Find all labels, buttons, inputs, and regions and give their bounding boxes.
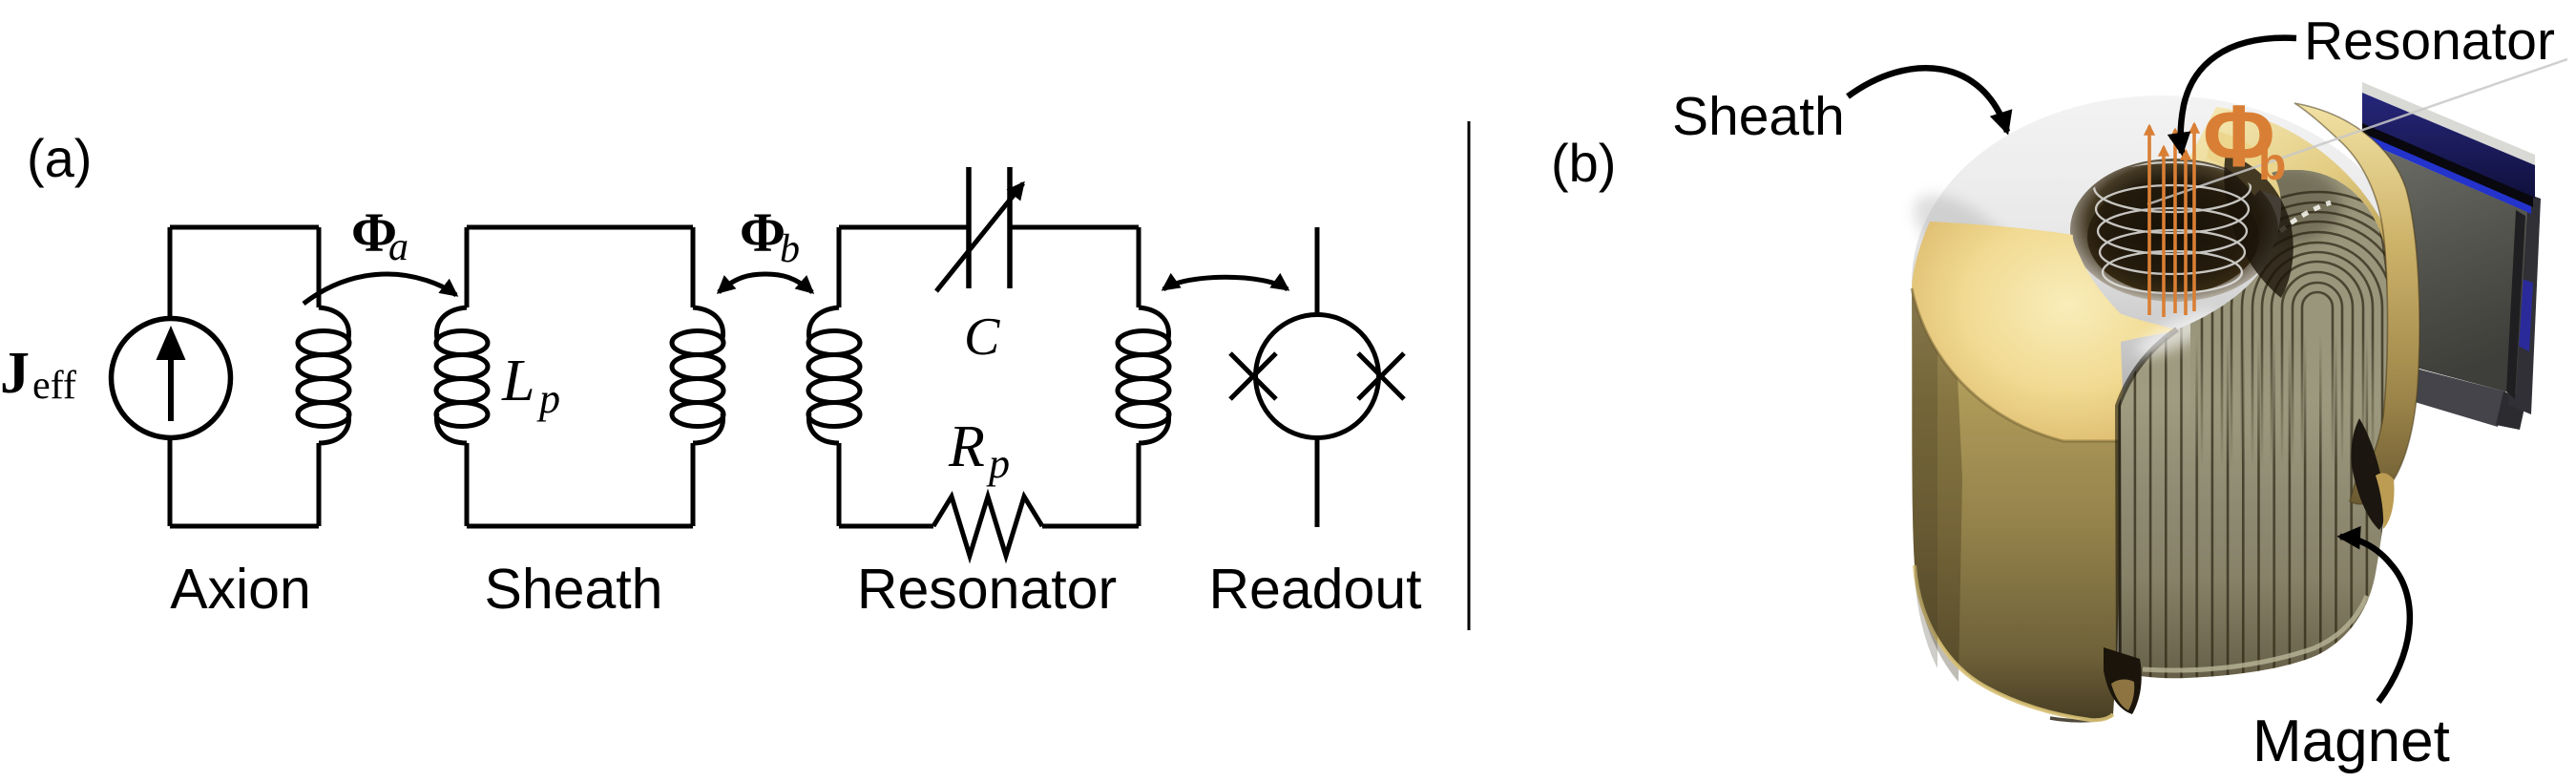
magnet winding arch (cut face)	[2190, 162, 2433, 535]
pointer arrow magnet	[2340, 537, 2410, 702]
svg-text:Resonator: Resonator	[2304, 11, 2555, 72]
flux label Phi_b	[740, 201, 800, 271]
sheath cylinder left shading	[1912, 296, 1937, 668]
sheath cylinder bottom rim highlight	[1915, 565, 2113, 720]
inductor axion coil	[298, 307, 349, 443]
inductor resonator right coil	[1118, 307, 1169, 443]
svg-text:Resonator: Resonator	[857, 558, 1117, 621]
inductor sheath right coil L_p	[672, 307, 723, 443]
svg-text:C: C	[964, 307, 1000, 367]
value label R_p	[948, 414, 1010, 487]
silver rim gray streaks	[1899, 178, 2037, 303]
gold bottom corner dark edge	[2050, 715, 2112, 721]
resistor R_p	[933, 497, 1042, 556]
wire axion loop	[170, 227, 319, 526]
svg-text:eff: eff	[32, 364, 76, 408]
magnet bottom light rim	[2143, 596, 2367, 670]
wedge bottom crease	[1912, 288, 2125, 441]
thin guide line to resonator plate	[2147, 59, 2567, 204]
sheath cylinder front (gold)	[1912, 288, 2124, 720]
josephson junction left	[1230, 353, 1276, 399]
coupling arrow Phi_b (double headed)	[719, 274, 812, 292]
svg-text:Sheath: Sheath	[485, 558, 663, 621]
capacitor C (variable)	[936, 167, 1023, 291]
svg-text:L: L	[501, 349, 534, 413]
svg-text:R: R	[948, 414, 985, 479]
sheath top (silver torus rim)	[1912, 95, 2412, 468]
torus inner lip (dark)	[2070, 159, 2278, 302]
flux label Phi_b (orange)	[2203, 88, 2286, 190]
svg-text:(b): (b)	[1551, 133, 1616, 193]
value label L_p	[501, 349, 560, 422]
flux arrows Phi_b (orange)	[2149, 124, 2194, 317]
sheath cylinder left dark edge	[1912, 288, 1962, 682]
pointer arrow resonator	[2181, 38, 2296, 153]
svg-text:a: a	[388, 225, 408, 269]
coupling arrow Phi_a	[304, 274, 456, 304]
SQUID readout	[1256, 227, 1379, 527]
svg-text:(a): (a)	[27, 128, 92, 188]
coupling arrow readout (double headed)	[1163, 277, 1288, 289]
pointer arrow sheath	[1848, 68, 2007, 132]
svg-text:Magnet: Magnet	[2252, 709, 2450, 774]
sheath cut face gold (top right sector)	[2181, 107, 2406, 344]
josephson junction right	[1358, 353, 1404, 399]
inductor resonator left coil	[808, 307, 860, 443]
svg-text:p: p	[536, 375, 560, 422]
divider line	[1468, 121, 1471, 630]
node label J_eff	[0, 341, 76, 408]
resonator plate assembly (behind)	[2362, 82, 2541, 430]
dark recess under right rim	[2351, 418, 2384, 530]
bore hole	[2087, 180, 2259, 294]
shading right of bore hole	[2224, 153, 2293, 298]
wire sheath loop	[467, 227, 693, 526]
svg-text:p: p	[986, 440, 1010, 487]
svg-text:b: b	[780, 227, 800, 271]
svg-text:b: b	[2258, 139, 2286, 190]
resonator coil spiral (white)	[2094, 162, 2251, 293]
flux label Phi_a	[351, 201, 408, 269]
shadow under magnet	[2104, 647, 2142, 714]
svg-text:J: J	[0, 341, 30, 406]
wire resonator loop	[839, 227, 1139, 526]
sheath cut face gold (front-left wedge)	[1912, 222, 2179, 441]
inductor sheath left coil	[436, 307, 488, 443]
svg-text:Φ: Φ	[740, 201, 785, 264]
svg-text:Readout: Readout	[1208, 558, 1421, 621]
gold piece at hole top right	[2207, 130, 2281, 196]
magnet toroid body	[2118, 170, 2394, 678]
sheath right cut rim (gold band)	[2294, 103, 2419, 504]
svg-text:Sheath: Sheath	[1672, 86, 1845, 147]
current source J_eff	[112, 319, 231, 438]
svg-text:Axion: Axion	[170, 558, 311, 621]
